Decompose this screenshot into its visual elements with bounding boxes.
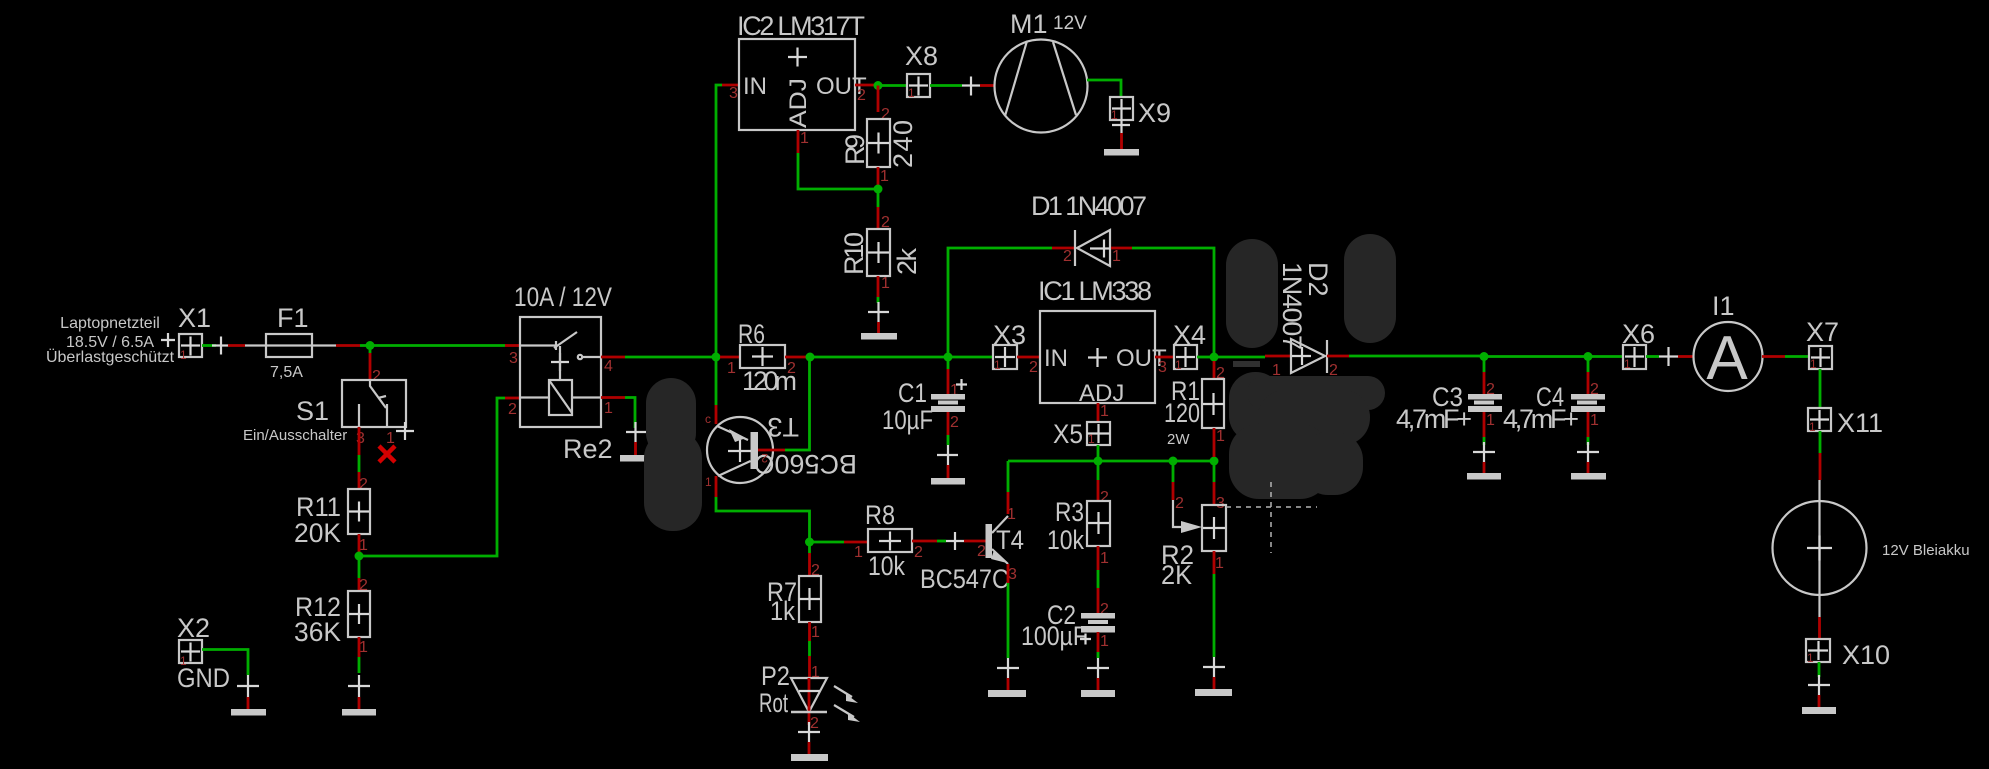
wire node K to node P xyxy=(1484,355,1584,358)
resistor R9 240 xyxy=(840,119,918,168)
wire R1 to node N xyxy=(1214,428,1225,457)
wire T3 base to node H xyxy=(758,361,810,450)
svg-text:X11: X11 xyxy=(1837,408,1883,438)
svg-text:1: 1 xyxy=(1215,555,1224,572)
connector X11 xyxy=(1808,408,1883,438)
wire C3 to ground xyxy=(1483,412,1486,445)
svg-text:1: 1 xyxy=(1216,428,1225,445)
wire relay pin4 to node C xyxy=(601,356,712,359)
connector X7 xyxy=(1806,317,1839,371)
svg-text:BC547C: BC547C xyxy=(920,564,1009,594)
wire T4 collector up to bus xyxy=(1007,461,1010,514)
svg-text:1: 1 xyxy=(880,168,889,185)
svg-text:1k: 1k xyxy=(770,596,795,626)
svg-text:3: 3 xyxy=(509,350,518,367)
wire node A down to S1 pin2 xyxy=(370,346,381,386)
svg-text:3: 3 xyxy=(1158,359,1167,376)
resistor R8 10k xyxy=(865,500,912,581)
wire node C down to T3 emitter xyxy=(705,357,716,426)
node H junction xyxy=(806,353,815,362)
wire R8 to T4 base xyxy=(912,532,986,561)
adj bus wire xyxy=(1008,460,1214,463)
node J junction xyxy=(805,538,814,547)
node K junction xyxy=(1480,352,1489,361)
svg-text:4: 4 xyxy=(604,358,613,375)
svg-text:1: 1 xyxy=(1100,550,1109,567)
svg-text:X10: X10 xyxy=(1842,640,1890,670)
wire S1 pin3 to R11 xyxy=(359,427,368,493)
svg-text:ADJ: ADJ xyxy=(785,78,812,128)
node A junction xyxy=(366,341,375,350)
svg-text:2k: 2k xyxy=(892,248,922,276)
ground P2 xyxy=(791,722,828,761)
wire X7 to X11 xyxy=(1819,369,1822,408)
trimmer R2 2K xyxy=(1161,505,1226,590)
svg-text:1: 1 xyxy=(811,624,820,641)
node supply-note text xyxy=(46,315,175,366)
connector X3 xyxy=(993,320,1026,372)
svg-text:1: 1 xyxy=(1100,633,1109,650)
wire R2 to ground xyxy=(1214,551,1224,657)
wire X6 to I1 xyxy=(1646,347,1694,366)
node B junction xyxy=(355,552,364,561)
wire C1 to ground xyxy=(947,412,950,445)
wire C2 to ground xyxy=(1097,632,1100,658)
svg-text:IN: IN xyxy=(743,73,767,100)
node C junction xyxy=(712,353,721,362)
LED P2 Rot xyxy=(759,661,860,732)
wire X10 to ground xyxy=(1818,662,1821,677)
svg-text:1: 1 xyxy=(1807,651,1814,665)
svg-text:240: 240 xyxy=(888,120,918,168)
connector X6 xyxy=(1622,319,1655,371)
diode D2 1N4007 xyxy=(1277,262,1338,379)
ground X2 xyxy=(231,675,266,716)
svg-text:R9: R9 xyxy=(840,134,870,165)
svg-text:X7: X7 xyxy=(1806,317,1839,347)
svg-text:120m: 120m xyxy=(742,366,797,396)
wire R10 to ground xyxy=(878,275,890,303)
svg-text:1N4007: 1N4007 xyxy=(1277,262,1307,350)
svg-text:2W: 2W xyxy=(1167,431,1190,448)
svg-text:c: c xyxy=(705,412,711,426)
capacitor C3 4,7mF xyxy=(1396,382,1502,434)
svg-text:1: 1 xyxy=(1810,357,1817,371)
node N junction xyxy=(1210,457,1219,466)
marker blob 2 xyxy=(1344,234,1396,343)
svg-text:GND: GND xyxy=(177,663,230,693)
svg-text:2: 2 xyxy=(857,87,866,104)
wire node D down to R9 xyxy=(878,86,890,124)
marker blob 3 xyxy=(1229,372,1385,499)
resistor R3 10k xyxy=(1047,497,1110,555)
svg-text:T4: T4 xyxy=(996,525,1024,555)
ground T4 xyxy=(988,658,1026,697)
wire relay pin1 to ground xyxy=(601,398,635,429)
svg-text:4,7mF+: 4,7mF+ xyxy=(1503,404,1579,434)
fuse F1 7,5A xyxy=(266,303,312,381)
svg-text:20K: 20K xyxy=(294,518,341,548)
node E junction xyxy=(874,185,883,194)
wire X2 to ground xyxy=(202,650,248,676)
svg-text:1: 1 xyxy=(705,475,712,489)
svg-text:X8: X8 xyxy=(905,41,938,71)
svg-text:Ein/Ausschalter: Ein/Ausschalter xyxy=(243,427,347,444)
wire node F up and right to D1 anode xyxy=(948,248,1052,353)
connector X8 xyxy=(905,41,938,100)
svg-text:2: 2 xyxy=(914,544,923,561)
svg-text:IN: IN xyxy=(1044,345,1068,372)
transistor T4 BC547C xyxy=(920,506,1024,594)
svg-text:X1: X1 xyxy=(178,303,211,333)
wire IC1 ADJ to X5 xyxy=(1097,403,1100,422)
svg-text:1: 1 xyxy=(604,400,613,417)
svg-text:2K: 2K xyxy=(1161,560,1192,590)
svg-text:1: 1 xyxy=(727,360,736,377)
wire R7 to P2 xyxy=(810,622,821,681)
wire R3 to C2 xyxy=(1098,546,1109,618)
marker blob 1 xyxy=(1226,239,1278,348)
wire node H to node F xyxy=(810,356,944,359)
wire battery to X10 xyxy=(1818,617,1821,639)
svg-text:3: 3 xyxy=(1216,495,1225,512)
svg-text:IC2 LM317T: IC2 LM317T xyxy=(737,11,865,41)
node L junction xyxy=(1094,457,1103,466)
svg-text:R10: R10 xyxy=(839,232,869,275)
wire R11 to node B xyxy=(359,534,368,554)
wire node A to relay pin3 xyxy=(370,344,520,347)
svg-text:12V: 12V xyxy=(1053,13,1087,34)
wire R12 to ground xyxy=(359,637,368,673)
ground X9 xyxy=(1104,125,1139,156)
wire node P down to C4 xyxy=(1588,357,1599,399)
svg-text:1: 1 xyxy=(994,358,1001,372)
ground R2 xyxy=(1195,657,1232,696)
erased-part residue dash xyxy=(1233,361,1260,367)
svg-text:X5: X5 xyxy=(1053,419,1083,449)
wire node B to R12 xyxy=(359,556,368,594)
svg-text:7,5A: 7,5A xyxy=(270,364,303,381)
wire node G down to R1 xyxy=(1214,361,1225,382)
svg-text:S1: S1 xyxy=(296,396,329,426)
resistor R10 2k xyxy=(839,229,922,276)
svg-text:P2: P2 xyxy=(761,661,790,691)
svg-text:2: 2 xyxy=(761,451,768,465)
wire IC2 IN down to node C xyxy=(716,85,722,357)
svg-text:2: 2 xyxy=(1100,489,1109,506)
wire node N down to R2 xyxy=(1214,461,1225,512)
node F junction xyxy=(944,353,953,362)
svg-text:3: 3 xyxy=(356,430,365,447)
svg-text:F1: F1 xyxy=(277,303,309,333)
wire node K down to C3 xyxy=(1484,357,1495,399)
battery G1 12V Bleiakku xyxy=(1773,480,1970,617)
svg-text:Überlastgeschützt: Überlastgeschützt xyxy=(46,348,175,366)
wire node F to X3 xyxy=(948,356,993,359)
svg-text:1: 1 xyxy=(881,275,890,292)
svg-text:X9: X9 xyxy=(1138,98,1171,128)
svg-text:Laptopnetzteil: Laptopnetzteil xyxy=(60,315,160,332)
regulator IC1 LM338 xyxy=(1038,276,1167,420)
ground R12 xyxy=(342,675,376,716)
svg-text:1: 1 xyxy=(180,348,187,362)
svg-text:X2: X2 xyxy=(177,613,210,643)
wire node C to R6 xyxy=(720,356,740,359)
wire IC1 OUT to X4 xyxy=(1155,356,1174,359)
connector X10 xyxy=(1806,639,1890,670)
relay Re2 10A/12V xyxy=(508,282,613,464)
shunt resistor R6 120m xyxy=(727,319,797,396)
wire D1 cathode to node G xyxy=(1111,248,1214,353)
wire F1 to node A xyxy=(312,344,370,346)
unconnected-pin X marker on S1 pin1 xyxy=(379,446,395,462)
svg-text:1: 1 xyxy=(1111,108,1118,122)
svg-text:10A / 12V: 10A / 12V xyxy=(514,282,612,312)
svg-text:T3: T3 xyxy=(767,412,799,442)
svg-text:R3: R3 xyxy=(1055,497,1084,527)
connector X1 xyxy=(161,303,211,362)
wire R6 to node H xyxy=(785,356,806,359)
wire node F down to C1 xyxy=(948,357,967,399)
wire node G to D2 anode xyxy=(1214,356,1291,379)
wire T3 collector to node J xyxy=(705,475,810,538)
svg-text:2: 2 xyxy=(977,543,986,560)
svg-text:D1 1N4007: D1 1N4007 xyxy=(1031,191,1147,221)
wire node B to relay coil pin2 xyxy=(359,398,505,556)
svg-text:2: 2 xyxy=(950,414,959,431)
svg-text:1: 1 xyxy=(386,430,395,447)
svg-text:1: 1 xyxy=(854,544,863,561)
svg-text:1: 1 xyxy=(1088,432,1095,446)
wire node M to R2 wiper xyxy=(1173,461,1202,533)
svg-text:1: 1 xyxy=(1175,358,1182,372)
capacitor C4 4,7mF xyxy=(1503,382,1605,434)
svg-text:2: 2 xyxy=(1175,495,1184,512)
wire M1 to X9 xyxy=(1087,80,1121,97)
diode D1 1N4007 xyxy=(1031,191,1147,266)
ground X10 xyxy=(1802,675,1836,714)
resistor R7 1k xyxy=(767,576,821,626)
wire T4 emitter to ground xyxy=(1007,564,1010,658)
connector X9 xyxy=(1110,97,1171,133)
motor M1 12V xyxy=(995,9,1088,133)
svg-text:4,7mF+: 4,7mF+ xyxy=(1396,404,1472,434)
node P junction xyxy=(1584,352,1593,361)
ground C2 xyxy=(1081,658,1115,697)
regulator IC2 LM317T xyxy=(729,11,867,147)
wire X1 to F1 xyxy=(202,337,266,355)
svg-text:1: 1 xyxy=(1590,412,1599,429)
capacitor C1 10uF xyxy=(882,378,965,435)
selection crosshair dashed xyxy=(1226,482,1317,553)
svg-text:M1: M1 xyxy=(1010,9,1048,39)
svg-text:2: 2 xyxy=(359,476,368,493)
svg-text:2: 2 xyxy=(508,401,517,418)
wire IC2 OUT to node D xyxy=(855,84,874,87)
svg-text:1: 1 xyxy=(800,130,809,147)
wire X8 to M1 xyxy=(930,77,995,96)
wire D2 cathode to node K xyxy=(1327,355,1480,358)
svg-text:1: 1 xyxy=(1809,420,1816,434)
svg-text:C1: C1 xyxy=(898,378,927,408)
wire R9 to node E xyxy=(878,167,889,185)
transistor T3 BC560C xyxy=(707,412,857,483)
svg-text:A: A xyxy=(1706,324,1748,393)
wire node L down to R3 xyxy=(1098,461,1109,506)
connector X4 xyxy=(1173,320,1206,372)
svg-text:10k: 10k xyxy=(1047,525,1084,555)
svg-text:2: 2 xyxy=(1063,248,1072,265)
wire node J to R8 xyxy=(810,542,869,561)
wire node E down to R10 xyxy=(878,189,890,231)
ground relay xyxy=(620,422,654,462)
svg-text:10µF: 10µF xyxy=(882,405,933,435)
svg-text:1: 1 xyxy=(908,86,915,100)
wire X3 to IC1 IN xyxy=(1017,357,1040,376)
wire IC2 ADJ to node E xyxy=(798,130,874,189)
svg-text:2: 2 xyxy=(1029,359,1038,376)
resistor R1 120 2W xyxy=(1164,376,1224,448)
wire X11 to battery xyxy=(1819,431,1822,480)
svg-text:10k: 10k xyxy=(868,551,905,581)
svg-text:100µF: 100µF xyxy=(1021,621,1087,651)
wire C4 to ground xyxy=(1587,412,1590,445)
node D junction xyxy=(874,81,883,90)
wire node D to X8 xyxy=(878,84,907,87)
svg-text:2: 2 xyxy=(810,715,819,732)
svg-text:12V Bleiakku: 12V Bleiakku xyxy=(1882,542,1970,559)
ammeter I1 xyxy=(1694,291,1763,393)
wire X5 to adj bus xyxy=(1097,445,1100,461)
resistor R11 20K xyxy=(294,489,370,548)
marker blob 4 xyxy=(644,378,702,531)
svg-text:1: 1 xyxy=(1112,248,1121,265)
svg-text:I1: I1 xyxy=(1712,291,1735,321)
svg-text:1: 1 xyxy=(1100,403,1109,420)
wire I1 to X7 xyxy=(1762,355,1809,358)
ground R10 xyxy=(861,302,897,340)
ground C3 xyxy=(1467,442,1501,480)
switch S1 Ein/Ausschalter xyxy=(243,380,414,447)
svg-text:2: 2 xyxy=(372,368,381,385)
node G junction xyxy=(1210,353,1219,362)
svg-text:120: 120 xyxy=(1164,398,1200,428)
wire X4 to node G xyxy=(1197,356,1210,359)
svg-text:R8: R8 xyxy=(865,500,895,530)
svg-text:1: 1 xyxy=(1624,357,1631,371)
svg-text:36K: 36K xyxy=(294,617,341,647)
svg-text:IC1 LM338: IC1 LM338 xyxy=(1038,276,1152,306)
capacitor C2 100uF xyxy=(1021,600,1115,651)
wire node P to X6 xyxy=(1588,355,1623,358)
ground C1 xyxy=(931,445,965,485)
ground C4 xyxy=(1571,442,1606,480)
svg-text:3: 3 xyxy=(729,85,738,102)
svg-text:1: 1 xyxy=(1486,412,1495,429)
wire node J down to R7 xyxy=(810,542,821,579)
node M junction xyxy=(1169,457,1178,466)
svg-text:Re2: Re2 xyxy=(563,434,613,464)
resistor R12 36K xyxy=(294,591,370,647)
connector X5 xyxy=(1053,419,1110,449)
connector X2 GND xyxy=(177,613,230,693)
svg-text:Rot: Rot xyxy=(759,688,788,718)
